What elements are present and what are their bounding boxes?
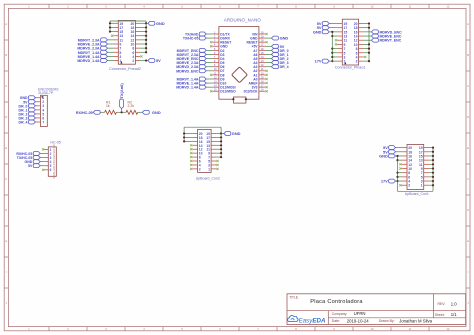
junction	[220, 144, 222, 146]
pin 14	[192, 144, 197, 146]
wire	[100, 111, 104, 113]
wire	[140, 31, 146, 33]
net flag 5V	[40, 165, 44, 167]
junction	[432, 176, 434, 178]
wire bottom	[398, 190, 434, 192]
body CN2	[118, 21, 135, 65]
svg-text:TITLE:: TITLE:	[289, 295, 299, 299]
svg-text:GND: GND	[379, 153, 388, 158]
svg-text:MDRVD_1.4A: MDRVD_1.4A	[176, 86, 199, 90]
junction	[220, 140, 222, 142]
body	[342, 19, 358, 65]
junction	[145, 51, 147, 53]
pin 7 D4	[212, 58, 219, 60]
junction	[331, 56, 333, 58]
svg-text:RX/HC-05: RX/HC-05	[76, 111, 93, 115]
net flag DR_3	[34, 117, 36, 119]
connector CN2 Connector_Pnead2	[77, 21, 164, 72]
junction	[432, 159, 434, 161]
net flag MDRVE_ENC	[206, 58, 212, 60]
svg-text:Placa Controladora: Placa Controladora	[310, 299, 363, 305]
pin 5	[337, 52, 342, 54]
svg-text:2: 2	[356, 60, 358, 64]
svg-text:Jonathan M Silva: Jonathan M Silva	[399, 318, 433, 323]
body	[41, 95, 48, 126]
pin 16 D13/SCK	[259, 90, 266, 92]
wire	[216, 148, 221, 150]
pin 13	[114, 35, 119, 37]
EasyEDA logo	[288, 316, 326, 325]
pin 1	[44, 148, 48, 150]
net flag DR_0	[34, 105, 36, 107]
resistor R1	[105, 110, 117, 114]
svg-text:Drawn By:: Drawn By:	[379, 319, 395, 323]
module HC-05	[16, 140, 60, 178]
svg-text:C: C	[467, 84, 469, 88]
wire	[429, 151, 433, 153]
net flag GND	[40, 161, 44, 163]
junction	[432, 147, 434, 149]
pin 20	[402, 147, 408, 149]
no-connect pin 6	[42, 169, 44, 171]
svg-text:D13/SCK: D13/SCK	[244, 90, 259, 94]
pin 19	[114, 22, 119, 24]
svg-text:Company:: Company:	[332, 312, 348, 316]
pin 8	[359, 48, 364, 50]
no-connect	[216, 168, 218, 170]
junction	[432, 155, 434, 157]
svg-text:G: G	[467, 208, 469, 212]
svg-text:UpBoard_Con1: UpBoard_Con1	[405, 192, 429, 196]
pin 2	[359, 60, 364, 62]
junction	[396, 176, 398, 178]
pin 5 D2	[212, 49, 219, 51]
svg-text:D: D	[5, 115, 7, 119]
pin 7	[114, 47, 119, 49]
MCU module U1 ARDUINO_NANO	[176, 17, 288, 103]
pin 11	[337, 39, 342, 41]
pin 10 D7	[212, 70, 219, 72]
svg-text:UFRN: UFRN	[354, 311, 366, 316]
pin 17	[114, 26, 119, 28]
no-connect	[190, 152, 192, 154]
wire bus right	[368, 24, 370, 62]
junction	[232, 98, 234, 100]
svg-text:GND: GND	[280, 36, 289, 41]
svg-text:HC-05: HC-05	[50, 140, 60, 144]
pin 19	[424, 147, 430, 149]
wire	[364, 48, 369, 50]
junction	[145, 30, 147, 32]
no-connect	[190, 164, 192, 166]
svg-text:Connector_Pinao1: Connector_Pinao1	[335, 66, 366, 70]
pin 9	[424, 168, 430, 170]
svg-text:STATE RXD TXD GND VCC EN: STATE RXD TXD GND VCC EN	[53, 144, 56, 178]
pin 6	[402, 176, 408, 178]
svg-text:1/1: 1/1	[451, 312, 458, 317]
pin 6	[36, 117, 41, 119]
pin 13	[211, 144, 216, 146]
wire	[140, 26, 146, 28]
wire gnd bus right	[432, 148, 434, 192]
no-connect	[364, 56, 366, 58]
pin 17 3V3	[259, 86, 266, 88]
no-connect pin 13	[111, 35, 113, 37]
wire	[138, 111, 143, 113]
pin 15	[211, 140, 216, 142]
net flag MDRVD_1.4A	[108, 60, 114, 62]
pin 15	[424, 155, 430, 157]
pin 28 RESET	[259, 41, 266, 43]
pin 1 marker	[120, 61, 122, 64]
svg-text:2: 2	[408, 184, 410, 188]
pin 8 D5	[212, 62, 219, 64]
net flag DR_3	[265, 62, 271, 64]
junction	[145, 47, 147, 49]
svg-text:G: G	[5, 208, 7, 212]
svg-text:6: 6	[50, 168, 52, 172]
wire	[216, 133, 221, 135]
pin 9 D6	[212, 66, 219, 68]
wire	[429, 184, 433, 186]
junction	[183, 140, 185, 142]
pin 6	[135, 51, 140, 53]
svg-text:Date:: Date:	[332, 319, 340, 323]
no-connect	[399, 163, 401, 165]
wire	[332, 52, 337, 54]
junction	[368, 52, 370, 54]
no-connect	[335, 43, 337, 45]
pin 5	[424, 176, 430, 178]
junction	[432, 163, 434, 165]
pin 22 A3	[259, 66, 266, 68]
no-connect D8	[210, 74, 212, 76]
pin 5	[211, 160, 216, 162]
pin 14	[402, 159, 408, 161]
pin 9	[211, 152, 216, 154]
no-connect D13/SCK	[266, 90, 268, 92]
svg-text:ARDUINO_NANO: ARDUINO_NANO	[224, 17, 262, 22]
junction	[145, 39, 147, 41]
pin 5	[114, 51, 119, 53]
junction	[432, 184, 434, 186]
wire bus left	[331, 32, 333, 61]
pin 1	[424, 184, 430, 186]
net flag 17V	[329, 60, 337, 62]
pin 5	[36, 113, 41, 115]
wire	[216, 144, 221, 146]
svg-text:D: D	[467, 115, 469, 119]
net flag TX/HC-05	[40, 157, 44, 159]
net flag GND	[396, 155, 402, 157]
no-connect VIN	[266, 33, 268, 35]
no-connect D12/MISO	[210, 90, 212, 92]
polarity diamond	[232, 67, 248, 83]
no-connect	[335, 39, 337, 41]
no-connect A2	[266, 70, 268, 72]
no-connect pin 3	[140, 55, 142, 57]
pin 13	[337, 35, 342, 37]
pin 6	[192, 160, 197, 162]
connector ENCODERS 2U/35-7P	[19, 87, 60, 126]
wire	[184, 136, 192, 138]
junction	[220, 152, 222, 154]
svg-text:TX/HC-05: TX/HC-05	[183, 37, 199, 41]
pin 21 A2	[259, 70, 266, 72]
junction	[331, 47, 333, 49]
svg-text:TX(An6): TX(An6)	[119, 83, 124, 99]
pin 17	[424, 151, 430, 153]
svg-text:2U/35-7P: 2U/35-7P	[38, 91, 54, 95]
svg-text:1: 1	[208, 167, 210, 171]
pin 6 D3	[212, 53, 219, 55]
pin 2 D0/RX	[212, 37, 219, 39]
net flag 5V	[140, 60, 148, 62]
pin 1	[36, 97, 41, 99]
pin 14 D11/MOSI	[212, 86, 219, 88]
pin 25 A6	[259, 53, 266, 55]
pin 13 D10	[212, 82, 219, 84]
net flag GND	[265, 37, 271, 39]
pin 11	[424, 163, 430, 165]
wire	[184, 140, 192, 142]
wire	[429, 172, 433, 174]
pin 2	[36, 101, 41, 103]
resistor R2	[126, 110, 138, 114]
junction	[396, 159, 398, 161]
no-connect pin 1	[42, 148, 44, 150]
net flag 5V	[265, 45, 271, 47]
pin 6	[359, 52, 364, 54]
body	[407, 145, 424, 190]
pin 6	[44, 169, 48, 171]
pin 16	[135, 31, 140, 33]
net flag 5V	[329, 23, 337, 25]
body U1	[219, 27, 259, 100]
svg-text:5V: 5V	[28, 164, 33, 168]
pin 2	[135, 60, 140, 62]
pin 8	[402, 172, 408, 174]
svg-text:MDRVD_ENC: MDRVD_ENC	[176, 69, 199, 73]
pin 18	[402, 151, 408, 153]
no-connect	[190, 160, 192, 162]
pin 1 marker	[344, 62, 346, 65]
pin 4 GND	[212, 45, 219, 47]
svg-text:E: E	[467, 146, 469, 150]
wire	[216, 156, 221, 158]
wire	[140, 39, 146, 41]
pin 10	[402, 168, 408, 170]
net flag TX(An6)	[206, 33, 212, 35]
svg-text:Easy: Easy	[299, 317, 314, 324]
svg-text:2019-10-24: 2019-10-24	[347, 318, 370, 323]
svg-text:5V: 5V	[156, 58, 161, 63]
pin 4	[44, 161, 48, 163]
pin 10	[359, 43, 364, 45]
net flag MDRVT_1.4A	[108, 51, 114, 53]
net flag TX/HC-05	[206, 37, 212, 39]
pin 19	[211, 133, 216, 135]
svg-text:2: 2	[199, 167, 201, 171]
net flag DR_2	[265, 58, 271, 60]
junction	[183, 136, 185, 138]
pin 10	[192, 152, 197, 154]
pin 5	[44, 165, 48, 167]
junction	[109, 26, 111, 28]
net flag MDRVD_ENC	[206, 70, 212, 72]
wire	[110, 26, 114, 28]
wire	[140, 51, 146, 53]
pin 4	[36, 109, 41, 111]
pin 12	[359, 39, 364, 41]
connector UpBoard_Con1	[379, 145, 434, 197]
net flag MDRVT_2.3A	[206, 53, 212, 55]
pin 3	[44, 157, 48, 159]
no-connect RESET	[210, 41, 212, 43]
pin 30 VIN	[259, 33, 266, 35]
pin 18	[135, 26, 140, 28]
wire	[429, 147, 433, 149]
pin 7	[211, 156, 216, 158]
junction	[220, 132, 222, 134]
pin 1 D1/TX	[212, 33, 219, 35]
pin 27 +5V	[259, 45, 266, 47]
svg-text:MDRVD_1.4A: MDRVD_1.4A	[77, 59, 100, 63]
pin 26 A7	[259, 49, 266, 51]
junction	[220, 156, 222, 158]
no-connect	[190, 148, 192, 150]
pin 3	[211, 164, 216, 166]
pin 16	[192, 140, 197, 142]
net flag GND	[148, 21, 155, 25]
pin 13	[424, 159, 430, 161]
pin 2	[44, 152, 48, 154]
pin 8	[192, 156, 197, 158]
svg-text:GND: GND	[152, 110, 161, 115]
net flag MDRVD_2.3A	[206, 66, 212, 68]
junction	[331, 35, 333, 37]
junction	[245, 98, 247, 100]
pin 11 D8	[212, 74, 219, 76]
wire bus right	[145, 21, 147, 52]
wire	[429, 180, 433, 182]
wire	[332, 48, 337, 50]
svg-text:D12/MISO: D12/MISO	[220, 90, 236, 94]
junction node TX(An6)	[121, 111, 123, 113]
junction	[432, 180, 434, 182]
junction	[368, 43, 370, 45]
pin 4	[359, 56, 364, 58]
pin 3 RESET	[212, 41, 219, 43]
net flag GND	[221, 133, 224, 135]
no-connect	[190, 168, 192, 170]
net flag DR_2	[34, 113, 36, 115]
wire	[429, 163, 433, 165]
junction	[145, 22, 147, 24]
body	[198, 129, 212, 172]
voltage divider	[76, 83, 161, 115]
pin 14	[359, 35, 364, 37]
wire	[332, 35, 337, 37]
net flag MDRVE_1.4A	[108, 55, 114, 57]
no-connect	[216, 160, 218, 162]
net flag MDRVE_2.3A	[206, 62, 212, 64]
no-connect GND	[210, 45, 212, 47]
wire	[216, 152, 221, 154]
svg-text:7: 7	[42, 120, 44, 124]
svg-text:A: A	[467, 22, 469, 26]
svg-text:1: 1	[119, 59, 121, 63]
title block	[287, 294, 466, 325]
svg-text:UpBoard_Con2: UpBoard_Con2	[196, 176, 220, 180]
wire	[398, 172, 402, 174]
wire	[364, 52, 369, 54]
pin 18	[359, 27, 364, 29]
wire	[364, 43, 369, 45]
wire	[140, 43, 146, 45]
pin 12	[135, 39, 140, 41]
svg-text:EDA: EDA	[312, 317, 326, 324]
pin 3	[36, 105, 41, 107]
pin 12 D9	[212, 78, 219, 80]
pin 18 AREF	[259, 82, 266, 84]
pin 16	[402, 155, 408, 157]
pin 16	[359, 31, 364, 33]
pin 7	[424, 172, 430, 174]
svg-text:2: 2	[132, 59, 134, 63]
junction	[220, 148, 222, 150]
wire	[429, 168, 433, 170]
pin 10	[135, 43, 140, 45]
svg-text:GND: GND	[313, 29, 322, 34]
net flag MDRVT_2.3A	[108, 39, 114, 41]
junction	[145, 35, 147, 37]
pin 18	[192, 136, 197, 138]
pin 15	[337, 31, 342, 33]
net flag 5V	[396, 151, 402, 153]
connector CN1 Connector_Pinao1	[313, 19, 402, 69]
net flag MDRVE_1.4A	[206, 82, 212, 84]
net flag 5V	[396, 147, 402, 149]
wire	[140, 22, 146, 24]
junction	[432, 172, 434, 174]
pin 20 A1	[259, 74, 266, 76]
pin 15	[114, 31, 119, 33]
pin 14	[135, 35, 140, 37]
net flag RX/HC-05	[40, 152, 44, 154]
svg-text:17V: 17V	[381, 179, 388, 184]
junction	[331, 31, 333, 33]
no-connect	[190, 156, 192, 158]
no-connect AREF	[266, 82, 268, 84]
pin 7	[337, 48, 342, 50]
svg-text:B: B	[467, 53, 469, 57]
junction	[109, 30, 111, 32]
net flag 17V	[396, 180, 402, 182]
wire	[110, 31, 114, 33]
no-connect	[190, 144, 192, 146]
pin 1	[114, 60, 119, 62]
net flag GND	[142, 110, 149, 114]
svg-text:1k: 1k	[106, 104, 110, 108]
wire	[332, 56, 337, 58]
junction	[432, 151, 434, 153]
pin 4	[402, 180, 408, 182]
pin 17	[337, 27, 342, 29]
pin 1	[337, 60, 342, 62]
no-connect	[216, 164, 218, 166]
pin 2	[402, 184, 408, 186]
